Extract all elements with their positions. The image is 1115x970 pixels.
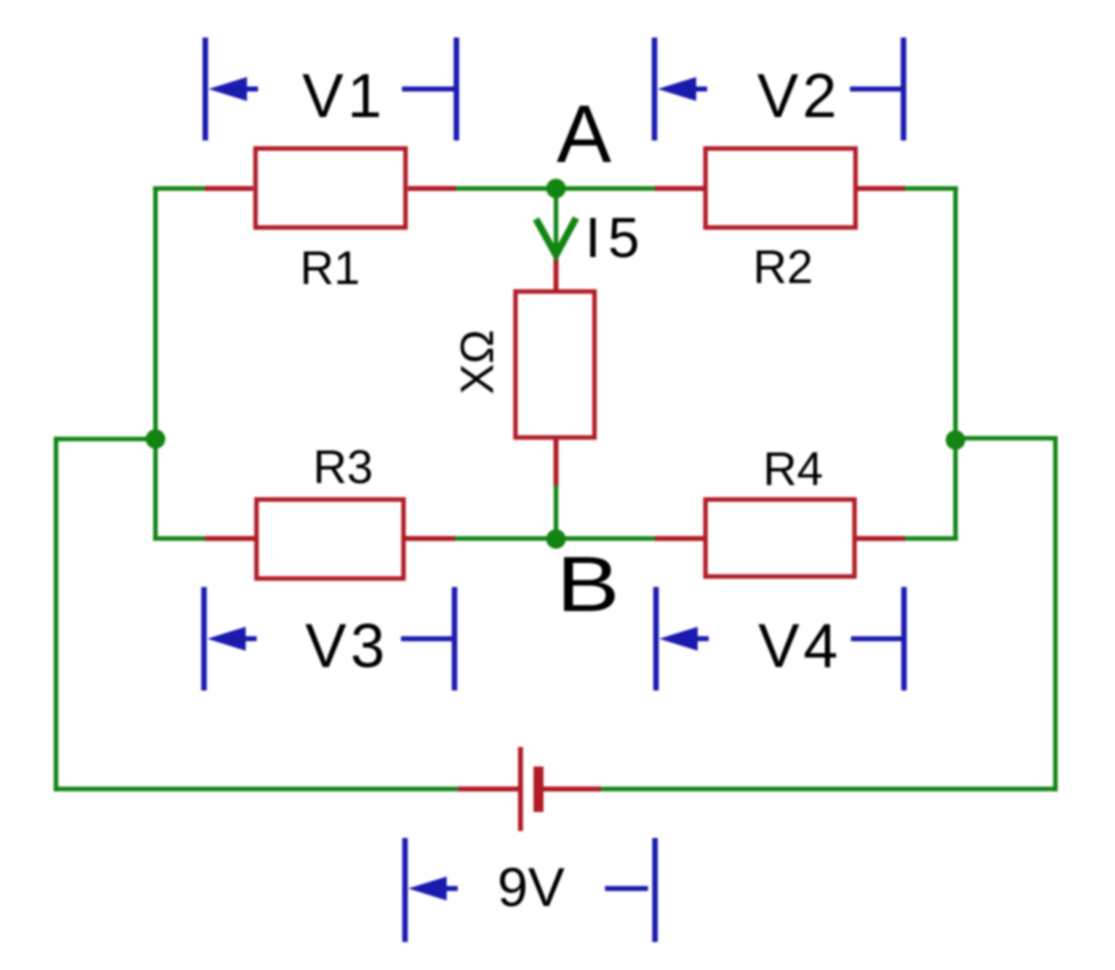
- svg-text:V3: V3: [305, 612, 389, 681]
- node A dot: [546, 179, 566, 199]
- svg-text:I5: I5: [585, 206, 640, 270]
- wire bottom row center green (node B span): [453, 536, 656, 541]
- svg-text:R2: R2: [753, 240, 813, 293]
- wire left inner vertical: [153, 187, 158, 541]
- resistor R3 lead right: [404, 536, 455, 541]
- resistor R1 lead right: [408, 186, 456, 191]
- resistor R1 lead left: [205, 186, 253, 191]
- current arrow I5 (green chevron): [536, 218, 576, 255]
- resistor R4 lead left: [655, 536, 705, 541]
- node B dot: [546, 529, 566, 549]
- wire right branch horizontal: [955, 436, 1057, 441]
- junction dot left: [146, 429, 166, 449]
- voltage marker V3: [204, 587, 455, 691]
- wire bottom left green: [54, 787, 458, 792]
- resistor R4 body: [706, 500, 855, 577]
- wire bottom row right green: [903, 536, 958, 541]
- svg-text:V4: V4: [758, 612, 842, 681]
- wire X lead bottom green: [554, 485, 559, 539]
- resistor X lead top: [554, 252, 559, 291]
- wire top row center green (node A span): [455, 186, 656, 191]
- wire top row left green: [153, 186, 206, 191]
- svg-text:R3: R3: [313, 440, 373, 493]
- resistor X lead bottom: [554, 438, 559, 487]
- battery long plate: [518, 747, 523, 831]
- wire outer left vertical: [54, 437, 59, 791]
- resistor R4 lead right: [855, 536, 905, 541]
- svg-text:V1: V1: [302, 62, 386, 131]
- resistor R2 body: [706, 149, 856, 228]
- resistor R2 lead left: [655, 186, 705, 191]
- junction dot right: [946, 430, 966, 450]
- battery lead right: [543, 787, 601, 792]
- svg-text:R4: R4: [763, 442, 823, 495]
- battery short plate: [534, 767, 544, 813]
- resistor X body: [516, 292, 595, 438]
- voltage marker V2: [655, 38, 904, 141]
- wire top row right green: [903, 186, 958, 191]
- resistor R2 lead right: [855, 186, 905, 191]
- svg-text:XΩ: XΩ: [451, 329, 503, 394]
- voltage marker 9V: [405, 838, 655, 942]
- resistor R1 body: [256, 149, 406, 228]
- svg-text:R1: R1: [300, 241, 360, 294]
- battery lead left: [458, 787, 518, 792]
- svg-text:V2: V2: [757, 62, 841, 131]
- wire node A vertical green down to arrow tip: [554, 189, 559, 255]
- wire bottom row left green: [153, 536, 206, 541]
- wire left branch horizontal: [54, 437, 156, 442]
- wire bottom right green: [601, 787, 1058, 792]
- wire outer right vertical: [1053, 436, 1058, 791]
- wire right inner vertical: [953, 187, 958, 541]
- voltage marker V1: [205, 38, 456, 141]
- voltage marker V4: [656, 587, 904, 691]
- resistor R3 body: [257, 500, 404, 579]
- svg-text:9V: 9V: [497, 856, 565, 918]
- resistor R3 lead left: [205, 536, 256, 541]
- svg-text:B: B: [556, 541, 619, 628]
- svg-text:A: A: [557, 89, 612, 180]
